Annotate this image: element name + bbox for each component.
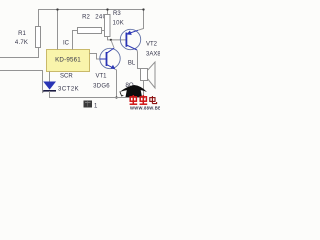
- transistor VT1 base lead inside: [100, 58, 106, 60]
- wire R3 bottom to VT2 base: [108, 37, 127, 40]
- svg-text:4.7K: 4.7K: [15, 40, 28, 46]
- node junction rail-IC: [56, 8, 58, 10]
- watermark text chong chong: [130, 95, 148, 104]
- wire top rail: [38, 9, 144, 11]
- node junction base net: [110, 39, 112, 41]
- thyristor SCR triangle: [43, 82, 56, 90]
- wire R1 bottom to left edge: [0, 48, 39, 58]
- svg-text:KD-9561: KD-9561: [55, 57, 81, 64]
- background: [0, 0, 160, 110]
- wire IC osc pin to R2: [73, 31, 78, 50]
- transistor VT1 collector lead: [107, 48, 114, 53]
- speaker BL horn: [148, 62, 156, 88]
- svg-text:3DG6: 3DG6: [93, 84, 110, 90]
- wire rail corner to R1: [38, 9, 40, 27]
- node junction emitter-rail: [115, 96, 117, 98]
- wire SCR cathode to rail: [49, 91, 51, 98]
- transistor VT1 emitter arrow: [111, 65, 116, 69]
- wire IC out pin to VT1 base: [90, 54, 101, 60]
- resistor R2: [78, 28, 102, 34]
- wire VT2 collector to speaker: [137, 50, 141, 69]
- watermark logo graduation cap: [120, 85, 148, 92]
- svg-text:BL: BL: [128, 61, 136, 67]
- node junction rail-R3: [106, 8, 108, 10]
- node junction rail corner: [142, 8, 144, 10]
- svg-text:3CT2K: 3CT2K: [58, 87, 79, 93]
- wire IC Vdd pin to rail: [57, 9, 59, 50]
- wire speaker bottom to rail: [143, 81, 145, 98]
- thyristor SCR cathode bar: [43, 90, 56, 92]
- wire VT2 emitter to rail corner: [138, 9, 143, 30]
- svg-text:VT2: VT2: [146, 42, 158, 48]
- transistor VT2 circle: [120, 29, 140, 49]
- wire VT1 emitter to ground rail: [115, 69, 116, 97]
- svg-text:10K: 10K: [113, 21, 125, 27]
- svg-text:WWW.88W.BBS: WWW.88W.BBS: [130, 106, 160, 110]
- resistor R1: [36, 27, 41, 48]
- svg-text:R3: R3: [113, 11, 121, 17]
- node junction speaker-rail: [142, 96, 144, 98]
- wire R2 right lead: [102, 30, 106, 32]
- svg-text:3AX81: 3AX81: [146, 52, 160, 58]
- svg-text:R1: R1: [18, 31, 26, 37]
- svg-text:IC: IC: [63, 41, 70, 47]
- resistor R3: [105, 15, 111, 37]
- speaker BL coil box: [141, 69, 148, 81]
- transistor VT2 collector lead: [127, 45, 137, 50]
- transistor VT2 emitter lead: [127, 30, 139, 34]
- svg-text:R2: R2: [82, 15, 90, 21]
- svg-text:VT1: VT1: [95, 74, 107, 80]
- IC U1 box KD-9561: [47, 50, 90, 72]
- watermark text dian: [150, 96, 157, 104]
- transistor VT2 emitter arrow: [127, 31, 132, 35]
- wire R3 top to rail: [107, 9, 109, 15]
- wire left input to SCR gate: [0, 71, 45, 93]
- transistor VT1 emitter lead: [107, 65, 115, 69]
- svg-text:SCR: SCR: [60, 74, 73, 80]
- thyristor SCR anode wire from IC: [49, 72, 51, 82]
- transistor VT2 base bar: [125, 33, 127, 47]
- transistor VT1 circle: [100, 48, 120, 68]
- transistor VT1 base bar: [106, 52, 108, 66]
- label figure number: [84, 101, 93, 108]
- wire bottom rail: [49, 97, 144, 99]
